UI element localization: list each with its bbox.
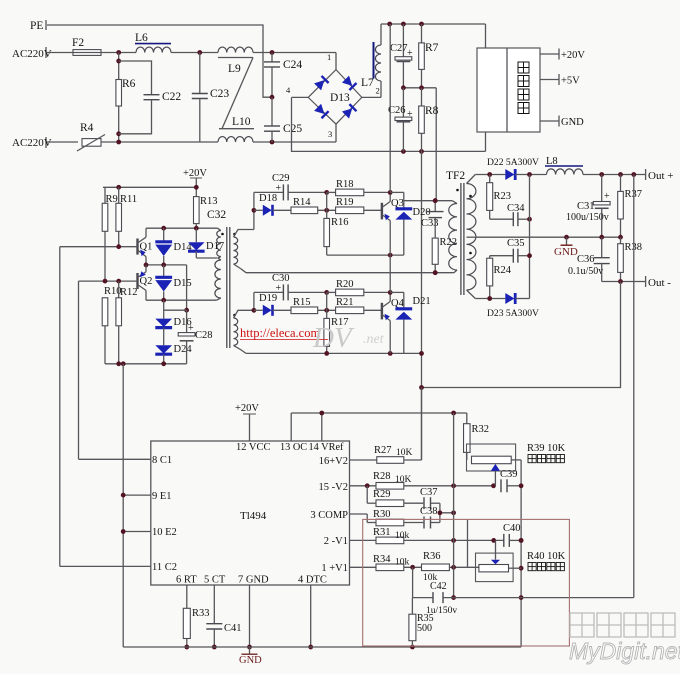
ground secondary GND xyxy=(554,237,578,258)
resistor R14 xyxy=(291,197,336,214)
svg-text:+: + xyxy=(604,191,610,202)
pin 3 COMP xyxy=(310,510,367,521)
svg-text:R23: R23 xyxy=(494,191,512,202)
resistor R27 xyxy=(374,388,422,464)
bridge rectifier D13 xyxy=(308,70,362,125)
watermark mydigit xyxy=(569,613,680,664)
diode D16 xyxy=(155,300,191,345)
polarity dot C32 primary xyxy=(221,233,224,236)
resistor R17 xyxy=(324,292,349,353)
svg-text:C41: C41 xyxy=(224,623,242,634)
wire Q1e Q2c node xyxy=(144,263,187,268)
diode D19 xyxy=(254,293,291,316)
node +20V VCC xyxy=(235,403,259,441)
svg-text:5 CT: 5 CT xyxy=(204,575,226,586)
svg-text:GND: GND xyxy=(561,117,584,128)
capacitor C28 xyxy=(178,310,212,364)
svg-text:F2: F2 xyxy=(72,37,84,49)
resistor R22 xyxy=(432,237,457,275)
diode D23 xyxy=(487,293,539,319)
svg-text:TF2: TF2 xyxy=(446,170,465,182)
wire bridge neg to primary rail xyxy=(292,97,486,153)
wire Q4 cell bottom row xyxy=(246,351,424,356)
resistor R16 xyxy=(324,192,349,255)
diode D17 xyxy=(188,228,224,258)
svg-text:8 C1: 8 C1 xyxy=(152,455,172,466)
svg-text:100u/150v: 100u/150v xyxy=(566,212,609,223)
resistor R21 xyxy=(336,297,382,314)
svg-text:L7: L7 xyxy=(361,77,374,89)
capacitor C42 xyxy=(426,581,634,616)
svg-text:C33: C33 xyxy=(421,218,439,229)
aux +20V output xyxy=(540,49,585,62)
choke core Z line xyxy=(218,58,254,129)
wire C2 feedback riser xyxy=(78,281,80,459)
svg-text:13 OC: 13 OC xyxy=(280,442,307,453)
wire out+ row xyxy=(583,172,646,177)
wire D22 output vertical xyxy=(529,175,531,299)
svg-text:L10: L10 xyxy=(232,116,251,128)
transistor Q4 xyxy=(382,290,405,353)
wire secondary gnd rail xyxy=(475,235,623,240)
svg-text:R21: R21 xyxy=(336,297,354,308)
resistor R33 xyxy=(183,608,209,649)
pin 14 VRef xyxy=(309,413,345,453)
capacitor C37 xyxy=(420,487,440,513)
wire primary + rail xyxy=(381,22,486,48)
wire PE to Y-cap midpoint xyxy=(47,25,272,97)
svg-text:Out -: Out - xyxy=(648,277,671,289)
svg-text:9 E1: 9 E1 xyxy=(152,491,172,502)
resistor R30 xyxy=(367,509,423,526)
svg-text:Q1: Q1 xyxy=(140,242,153,253)
resistor R34 xyxy=(373,554,422,571)
svg-text:C24: C24 xyxy=(283,59,302,71)
svg-text:C27: C27 xyxy=(390,43,408,54)
svg-text:R16: R16 xyxy=(331,217,349,228)
wire VRef drop to feedback xyxy=(451,413,456,600)
svg-text:10k: 10k xyxy=(395,558,410,568)
svg-text:D18: D18 xyxy=(259,193,277,204)
wire long vertical mid segment xyxy=(389,24,391,292)
svg-text:R30: R30 xyxy=(373,509,391,520)
wire AC top to F2 xyxy=(47,52,73,54)
capacitor C34 xyxy=(507,203,532,226)
ground TL494 GND xyxy=(239,647,262,666)
transistor Q3 xyxy=(382,190,404,255)
node PE xyxy=(30,20,46,32)
inductor L9 (common-mode choke top) xyxy=(218,47,253,75)
resistor R7 xyxy=(419,24,439,88)
resistor R28 xyxy=(365,471,494,489)
svg-text:R18: R18 xyxy=(336,179,354,190)
svg-text:C34: C34 xyxy=(507,203,525,214)
resistor R19 xyxy=(336,197,382,214)
pin 13 OC xyxy=(280,413,307,453)
pin 10 E2 xyxy=(121,527,177,538)
resistor R6 xyxy=(116,53,136,143)
svg-text:+: + xyxy=(407,109,413,120)
diode D21 xyxy=(390,292,430,353)
svg-text:3: 3 xyxy=(328,129,332,139)
resistor R10 xyxy=(102,286,121,364)
wire TF2 drive row top xyxy=(404,198,453,203)
wire D22 row xyxy=(475,172,505,177)
svg-text:+20V: +20V xyxy=(235,403,259,414)
pin 11 C2 xyxy=(60,562,177,573)
resistor R35 xyxy=(409,598,434,647)
pin 12 VCC xyxy=(236,442,271,453)
transformer C32 label xyxy=(207,209,226,221)
resistor R37 xyxy=(618,175,642,238)
wire mid rail xyxy=(401,85,436,90)
svg-text:C25: C25 xyxy=(283,123,302,135)
resistor R20 xyxy=(324,279,390,296)
capacitor C22 xyxy=(119,61,182,134)
wire Q2 base xyxy=(79,279,138,284)
svg-text:GND: GND xyxy=(239,655,262,666)
svg-text:12 VCC: 12 VCC xyxy=(236,442,271,453)
pin 9 E1 xyxy=(121,491,172,502)
svg-text:2 -V1: 2 -V1 xyxy=(324,536,348,547)
pin 8 C1 xyxy=(79,455,173,466)
svg-text:R31: R31 xyxy=(373,527,391,538)
svg-text:C23: C23 xyxy=(210,88,229,100)
svg-text:C38: C38 xyxy=(420,506,438,517)
svg-text:R29: R29 xyxy=(373,489,391,500)
feedback border box xyxy=(363,519,570,646)
svg-text:R7: R7 xyxy=(425,42,439,54)
wire out- row xyxy=(602,279,646,284)
svg-text:11 C2: 11 C2 xyxy=(152,562,177,573)
svg-text:10 E2: 10 E2 xyxy=(152,527,177,538)
svg-text:GND: GND xyxy=(554,246,578,258)
fuse F2 xyxy=(72,37,101,55)
wire mid rail down to TF2 drive xyxy=(435,88,437,200)
varistor R4 xyxy=(77,122,105,151)
wire long vertical from primary rail xyxy=(421,151,423,460)
svg-text:C22: C22 xyxy=(162,91,181,103)
capacitor C33 xyxy=(421,198,444,238)
wire aux rail stub xyxy=(485,132,487,151)
wire sec1 node riser xyxy=(252,192,257,229)
svg-text:1 +V1: 1 +V1 xyxy=(321,563,348,574)
capacitor C41 xyxy=(206,623,241,649)
svg-text:16+V2: 16+V2 xyxy=(319,456,348,467)
svg-text:D22 5A300V: D22 5A300V xyxy=(487,157,539,168)
transformer TF2 label xyxy=(446,170,465,182)
wire R40 left stub xyxy=(467,519,469,567)
wire F2 to junction xyxy=(101,50,136,55)
resistor R9 xyxy=(102,187,118,281)
svg-text:R19: R19 xyxy=(336,197,354,208)
svg-text:15 -V2: 15 -V2 xyxy=(319,482,348,493)
svg-text:10K: 10K xyxy=(396,448,413,458)
svg-text:2: 2 xyxy=(376,86,380,96)
wire COMP to R30 xyxy=(366,514,368,523)
inductor L10 (common-mode choke bottom) xyxy=(218,116,253,142)
svg-text:R34: R34 xyxy=(373,554,391,565)
polarity dot TF2 xyxy=(456,189,472,255)
svg-text:+: + xyxy=(407,48,413,59)
resistor R29 xyxy=(367,486,423,507)
wire L10 to bridge xyxy=(253,140,336,145)
op-amp U1 TL494 box xyxy=(151,441,350,585)
capacitor C24 (Y-cap) xyxy=(264,53,302,100)
wire C1 feedback riser xyxy=(59,247,61,567)
svg-text:14 VRef: 14 VRef xyxy=(309,442,345,453)
svg-text:+20V: +20V xyxy=(561,50,585,61)
svg-text:500: 500 xyxy=(417,623,432,634)
capacitor C39 xyxy=(491,469,521,492)
wire TF2 return row xyxy=(246,270,454,275)
polarity dot C32 secondary1 xyxy=(233,233,236,236)
svg-text:AC220V: AC220V xyxy=(12,137,52,149)
capacitor C31 xyxy=(566,175,610,238)
capacitor C26 xyxy=(388,88,413,152)
svg-text:7 GND: 7 GND xyxy=(238,575,269,586)
svg-text:R24: R24 xyxy=(494,265,512,276)
potentiometer R39 xyxy=(467,443,566,486)
svg-text:R20: R20 xyxy=(336,279,354,290)
svg-text:4 DTC: 4 DTC xyxy=(298,575,327,586)
svg-text:C37: C37 xyxy=(420,487,438,498)
pin 15 -V2 xyxy=(319,482,376,493)
wire D23 row xyxy=(475,296,505,301)
node +20V primary xyxy=(183,168,207,197)
svg-text:Tl494: Tl494 xyxy=(240,510,267,522)
bridge pin 3 wire xyxy=(328,124,336,142)
capacitor C29 xyxy=(254,173,327,200)
svg-text:D15: D15 xyxy=(174,278,192,289)
wire R4 to L10 xyxy=(101,140,218,145)
diode D18 xyxy=(254,193,291,216)
svg-text:R36: R36 xyxy=(423,551,441,562)
pin 4 DTC xyxy=(298,575,327,650)
wire V1 feedback row xyxy=(413,567,433,597)
svg-text:C28: C28 xyxy=(195,330,213,341)
wire Q1 collector row xyxy=(146,226,218,231)
capacitor C27 xyxy=(390,24,413,88)
inductor L6 xyxy=(135,32,171,53)
aux GND output xyxy=(540,116,584,129)
svg-text:D24: D24 xyxy=(174,344,193,355)
svg-text:AC220V: AC220V xyxy=(12,48,52,60)
svg-text:C42: C42 xyxy=(430,581,447,592)
resistor R23 xyxy=(487,175,514,220)
svg-text:10k: 10k xyxy=(395,531,410,541)
aux supply box xyxy=(477,48,540,132)
transistor Q1 xyxy=(138,228,153,265)
svg-text:C32: C32 xyxy=(207,209,226,221)
resistor R15 xyxy=(291,297,336,314)
capacitor C38 xyxy=(420,506,456,529)
capacitor C25 (Y-cap) xyxy=(264,97,302,142)
svg-text:C31: C31 xyxy=(577,201,595,212)
svg-text:C40: C40 xyxy=(503,523,521,534)
node Out+ xyxy=(646,169,674,182)
transformer TF2 core xyxy=(461,183,464,295)
bridge pin 4 wire xyxy=(286,85,308,97)
svg-text:L6: L6 xyxy=(135,32,148,44)
resistor R36 xyxy=(422,551,479,583)
svg-text:R39 10K: R39 10K xyxy=(527,443,566,454)
svg-text:6 RT: 6 RT xyxy=(176,575,197,586)
pin 1 +V1 xyxy=(321,563,376,574)
pin 6 RT xyxy=(176,575,197,609)
wire Q3 cell bottom row xyxy=(327,253,404,258)
transformer C32 primary winding xyxy=(215,228,221,300)
node AC220V line input xyxy=(12,47,52,60)
svg-text:+: + xyxy=(188,323,194,334)
capacitor C40 xyxy=(503,523,523,547)
aux +5V output xyxy=(540,74,580,87)
resistor R38 xyxy=(618,237,642,281)
polarity dot C32 secondary2 xyxy=(233,314,236,317)
svg-text:.net: .net xyxy=(363,332,385,347)
diode D14 xyxy=(155,228,192,265)
svg-text:D19: D19 xyxy=(259,293,277,304)
capacitor C30 xyxy=(254,273,327,300)
svg-text:R11: R11 xyxy=(120,194,137,205)
svg-text:+5V: +5V xyxy=(561,76,580,87)
wire gnd rail riser right xyxy=(519,460,524,647)
svg-text:R13: R13 xyxy=(200,196,218,207)
svg-text:C36: C36 xyxy=(577,254,595,265)
svg-text:1: 1 xyxy=(327,52,331,62)
watermark DV gray xyxy=(312,322,385,354)
transformer TF2 primary xyxy=(449,201,457,273)
wire AC bottom to R4 xyxy=(47,141,78,143)
svg-text:R14: R14 xyxy=(293,197,311,208)
bridge pin 1 wire xyxy=(327,52,336,70)
wire out+ sense drop xyxy=(633,175,635,598)
watermark eleca red xyxy=(240,326,328,340)
wire node down to C28 xyxy=(184,265,189,313)
svg-text:R4: R4 xyxy=(80,122,94,134)
wire +20V feed xyxy=(103,185,199,190)
svg-text:D23 5A300V: D23 5A300V xyxy=(487,308,539,319)
transistor Q2 xyxy=(138,265,153,300)
pin 5 CT xyxy=(204,575,226,624)
svg-text:L9: L9 xyxy=(228,63,241,75)
svg-text:C35: C35 xyxy=(507,238,525,249)
diode D24 xyxy=(155,344,192,364)
wire sec2 node riser xyxy=(252,292,257,312)
svg-text:DV: DV xyxy=(312,322,355,354)
capacitor C36 xyxy=(568,237,610,281)
resistor R32 xyxy=(464,413,489,460)
svg-text:D13: D13 xyxy=(330,92,350,104)
resistor R12 xyxy=(116,281,138,364)
wire C28 branch xyxy=(164,309,187,311)
svg-text:D21: D21 xyxy=(413,296,431,307)
svg-text:R40 10K: R40 10K xyxy=(527,551,566,562)
svg-text:R28: R28 xyxy=(373,471,391,482)
pin 16 +V2 xyxy=(319,456,377,467)
wire L9 to bridge xyxy=(253,50,336,55)
resistor R24 xyxy=(487,256,512,299)
svg-text:D20: D20 xyxy=(413,207,431,218)
bridge pin 2 wire xyxy=(362,86,381,98)
svg-text:10K: 10K xyxy=(395,475,412,485)
wire L6 to L9 xyxy=(171,50,218,55)
pin 2 -V1 xyxy=(324,536,376,547)
svg-text:Q2: Q2 xyxy=(140,276,153,287)
svg-text:+20V: +20V xyxy=(183,168,207,179)
wire pushpull bottom rail xyxy=(105,361,187,366)
inductor L7 xyxy=(361,24,381,97)
svg-text:R8: R8 xyxy=(425,105,439,117)
wire Q1 base xyxy=(60,244,138,249)
wire gnd rail bottom xyxy=(123,645,521,650)
wire out- sense drop xyxy=(419,282,620,390)
diode D22 xyxy=(487,157,547,180)
svg-text:PE: PE xyxy=(30,20,43,32)
diode D20 xyxy=(390,192,430,255)
transformer TF2 secondary xyxy=(467,175,476,299)
node Out- xyxy=(646,276,672,289)
svg-text:D17: D17 xyxy=(206,241,224,252)
svg-text:Out +: Out + xyxy=(648,170,673,182)
svg-text:R27: R27 xyxy=(374,445,392,456)
svg-text:R15: R15 xyxy=(293,297,311,308)
transformer C32 core xyxy=(227,227,230,348)
transformer C32 secondary 2 xyxy=(234,310,254,353)
svg-text:http://eleca.com: http://eleca.com xyxy=(240,326,320,340)
svg-text:3 COMP: 3 COMP xyxy=(310,510,348,521)
svg-text:MyDigit.net: MyDigit.net xyxy=(569,638,680,664)
diode D15 xyxy=(155,265,191,300)
resistor R31 xyxy=(373,527,504,544)
svg-text:R32: R32 xyxy=(472,424,490,435)
inductor L8 xyxy=(545,156,583,175)
potentiometer R40 xyxy=(476,540,566,581)
capacitor C35 xyxy=(490,238,532,263)
capacitor C23 xyxy=(192,53,230,143)
transformer C32 secondary 1 xyxy=(234,230,254,273)
wire emitter rail riser xyxy=(122,364,124,647)
wire VRef row xyxy=(291,411,467,416)
node AC220V neutral input xyxy=(12,137,52,149)
resistor R11 xyxy=(116,187,137,246)
resistor R8 xyxy=(419,88,439,152)
svg-text:R33: R33 xyxy=(192,608,210,619)
svg-text:0.1u/50v: 0.1u/50v xyxy=(568,266,603,277)
resistor R18 xyxy=(324,179,390,196)
pin 7 GND xyxy=(238,575,269,650)
svg-text:R12: R12 xyxy=(120,287,138,298)
wire Q2 emitter row xyxy=(146,298,217,303)
svg-text:R6: R6 xyxy=(122,78,136,90)
resistor R13 xyxy=(194,196,218,228)
